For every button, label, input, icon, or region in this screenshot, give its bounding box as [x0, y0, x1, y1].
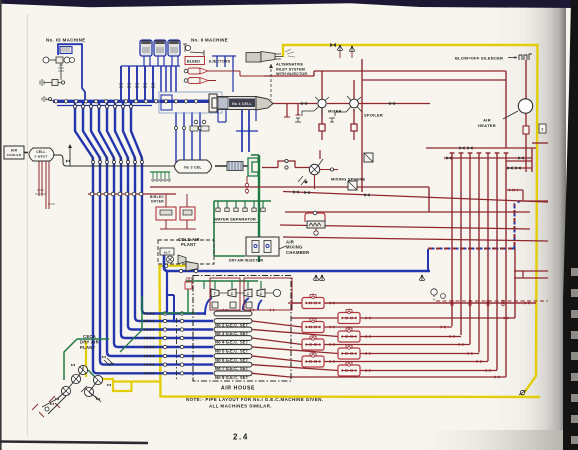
green water separator comb	[214, 200, 271, 202]
green grill under no3	[150, 171, 170, 173]
manifold box row 3	[302, 322, 324, 333]
left scan hairline	[0, 0, 2, 450]
svg-text:C: C	[247, 292, 250, 296]
alternative inlet silencer	[246, 53, 261, 63]
wire capsule to cell line	[53, 155, 176, 166]
bottom-left scan line	[0, 442, 148, 444]
wire red stub right b	[522, 271, 524, 278]
top row capsule	[214, 311, 252, 316]
wire red spoiler out	[359, 103, 430, 105]
cold air plant box	[158, 240, 214, 264]
bottom right shade	[420, 430, 566, 450]
wire blue feed to G.E.C. set row 8	[83, 103, 213, 365]
compressor C	[228, 289, 236, 297]
right book edge black strip	[563, 0, 578, 450]
wire red set row 7	[252, 356, 302, 362]
wire green main riser	[258, 155, 260, 262]
wire blue main bus	[53, 100, 210, 103]
wire red ejector to inlet	[216, 70, 240, 72]
wire yellow injector feed	[160, 265, 187, 267]
air house boundary	[193, 276, 291, 382]
valve symbols row 2	[129, 105, 132, 108]
svg-text:No 4 G.E.C. SET: No 4 G.E.C. SET	[215, 340, 249, 345]
wire red row2 riser	[514, 248, 516, 318]
G.E.C. set capsule No 8 G.E.C. SET	[214, 371, 252, 376]
valve symbols row 9	[73, 105, 76, 108]
wire red lower lines	[283, 192, 548, 203]
cell No4 enclosure	[159, 92, 222, 113]
svg-text:ALL MACHINES SIMILAR.: ALL MACHINES SIMILAR.	[209, 404, 272, 409]
svg-text:C: C	[231, 292, 234, 296]
machine No10 loop	[58, 44, 85, 100]
wire blue air-house west feeds	[166, 271, 168, 314]
svg-text:PLANT: PLANT	[181, 242, 196, 247]
svg-text:AIR HOUSE: AIR HOUSE	[221, 386, 255, 392]
G.E.C. set capsule No 3 G.E.C. SET	[214, 327, 252, 332]
wire red riser 1	[451, 153, 453, 326]
wire red mixer drop	[321, 108, 323, 124]
wire birlec dryer line	[88, 193, 176, 195]
wire red sphere bypass	[262, 167, 278, 169]
valve symbols row 6	[97, 105, 100, 108]
svg-text:EJECTORS: EJECTORS	[209, 60, 231, 64]
G.E.C. set capsule No 6 G.E.C. SET	[214, 354, 252, 359]
svg-text:2.4: 2.4	[233, 433, 249, 442]
drain symbols on distribution	[319, 276, 325, 281]
wire blue feed to G.E.C. set row 7	[91, 103, 213, 356]
valve on yellow top	[330, 43, 336, 47]
red dash overlay on blue	[428, 248, 515, 250]
wire red riser 2	[460, 153, 462, 335]
air cooler box	[4, 146, 24, 159]
ceca unit 4	[61, 386, 70, 395]
valve symbols row 3	[121, 105, 124, 108]
manifold box row 5	[302, 339, 324, 350]
wire cooler-capsule	[24, 152, 28, 154]
G.E.C. set capsule No 2 G.E.C. SET	[214, 319, 252, 324]
wire red stub right a	[514, 270, 548, 272]
svg-text:No 4 CELL: No 4 CELL	[232, 102, 252, 106]
svg-text:2: 2	[541, 128, 543, 132]
red heater chain	[525, 60, 527, 99]
valve on yellow diagonal	[520, 390, 524, 394]
spoiler U2	[350, 99, 359, 108]
No4 cell body	[209, 94, 217, 112]
machine No10 inner unit	[60, 47, 72, 54]
wire red set row 3	[252, 321, 302, 327]
wire red set row 9	[252, 373, 290, 377]
svg-text:No. IO MACHINE: No. IO MACHINE	[46, 38, 86, 43]
No9 machine links	[185, 45, 190, 50]
svg-text:ALTERNATIVE: ALTERNATIVE	[276, 63, 303, 67]
joint below bracket	[246, 176, 248, 194]
svg-text:CHAMBER: CHAMBER	[286, 250, 310, 255]
No3 cell capsule	[175, 160, 212, 173]
wire red set row 2	[291, 317, 338, 319]
right page-curl gradient	[470, 0, 566, 450]
svg-text:BLOW=OFF SILENCER: BLOW=OFF SILENCER	[455, 56, 503, 61]
wire blue feed to G.E.C. set row 5	[107, 103, 213, 338]
svg-text:SPOILER: SPOILER	[364, 113, 383, 118]
machine unit No9-2	[154, 40, 166, 56]
wire green to cold air plant	[213, 201, 215, 256]
air heater U3	[518, 99, 532, 113]
wire red set row 8	[252, 365, 338, 371]
wire red set row 1	[451, 300, 453, 302]
manifold box row 2	[338, 313, 360, 324]
wire red mixer-spoiler	[327, 103, 349, 105]
vertical near capsule	[69, 146, 71, 166]
wire blue riser right	[428, 249, 515, 272]
turbine T	[211, 289, 219, 297]
svg-text:ALT: ALT	[164, 250, 171, 254]
wire blue feed to G.E.C. set row 6	[99, 103, 213, 347]
wire red set row 6	[252, 347, 338, 354]
svg-text:DRY AIR INJECTOR: DRY AIR INJECTOR	[229, 259, 263, 263]
svg-text:WITH INJECTOR: WITH INJECTOR	[276, 72, 307, 76]
wire red riser 5	[487, 153, 489, 361]
wire blue feed to G.E.C. set row 9	[75, 103, 213, 373]
generator G	[273, 289, 280, 296]
svg-text:T: T	[214, 292, 216, 296]
valve symbols row 5	[105, 105, 108, 108]
svg-text:INLET SYSTEM: INLET SYSTEM	[276, 67, 305, 71]
wire red riser 4	[478, 153, 480, 353]
wire blue riser solid part	[427, 249, 429, 271]
air mixing chamber	[246, 237, 279, 256]
svg-text:HEATER: HEATER	[478, 123, 496, 128]
wire red set row 4	[252, 330, 338, 337]
manifold box row 6	[338, 348, 360, 359]
aux red box	[185, 282, 192, 289]
wire red long riser	[361, 59, 363, 192]
valve symbols row 8	[81, 105, 84, 108]
wire red mid line	[285, 211, 530, 213]
ceca unit 2	[71, 374, 80, 383]
wire red second top	[362, 79, 506, 81]
svg-text:CECA: CECA	[83, 334, 96, 339]
wire red riser 6	[496, 153, 498, 370]
wire green ceca riser	[141, 296, 143, 330]
G.E.C. set capsule No 4 G.E.C. SET	[214, 336, 252, 341]
wire red set row 5	[252, 338, 302, 345]
red train loop B	[244, 278, 292, 310]
wire red riser 3	[469, 153, 471, 344]
wire blue air-house turbine feeds	[205, 298, 212, 315]
svg-text:C: C	[260, 292, 263, 296]
svg-text:PLANT: PLANT	[80, 345, 96, 350]
wire yellow supply loop	[283, 45, 538, 397]
valve symbols row 7	[89, 105, 92, 108]
wire blue drops to No3 cell line	[175, 112, 177, 166]
exchanger box A	[364, 153, 373, 162]
wire red mixer riser	[321, 71, 323, 99]
bleed ejector units	[188, 68, 200, 74]
wire blue ejector drops	[216, 56, 218, 67]
wire red upper right link	[507, 189, 523, 191]
wire green air-house header	[186, 280, 258, 282]
ceca unit 1	[78, 365, 87, 374]
wire blue-red to right edge	[515, 201, 521, 249]
exchanger box B	[348, 181, 357, 190]
svg-text:DRYER: DRYER	[151, 199, 164, 203]
No10 machine components	[43, 57, 49, 63]
wire blue below cell No4	[241, 110, 243, 152]
svg-text:DRY AIR: DRY AIR	[80, 340, 99, 345]
red train loop A	[210, 278, 240, 310]
red tee drops after cell	[286, 104, 288, 117]
dry air injector cone	[186, 262, 198, 271]
wire red mixing line	[150, 186, 429, 188]
wire red west drops	[38, 161, 40, 196]
wire red spoiler riser	[353, 80, 355, 99]
svg-text:No 5 G.E.C. SET: No 5 G.E.C. SET	[215, 349, 249, 354]
wire red inlet feed	[264, 75, 314, 77]
wire blue feed to G.E.C. set row 4	[115, 103, 213, 330]
wire green ceca links	[64, 339, 109, 380]
wire red set1 long line	[288, 302, 536, 304]
red radiator unit	[305, 213, 325, 222]
No3 cell bracket	[248, 158, 258, 176]
machine unit No9-3	[168, 40, 180, 56]
svg-text:AIR: AIR	[11, 149, 18, 153]
wire red dashed gauge line	[436, 300, 548, 302]
ceca tail lines	[42, 396, 66, 414]
wire blue comb No9 to bus	[143, 56, 145, 66]
compressor C	[257, 289, 265, 297]
svg-text:3 WEST: 3 WEST	[35, 155, 48, 159]
wire red cell to mixer	[273, 103, 317, 105]
G.E.C. set capsule No 7 G.E.C. SET	[214, 362, 252, 367]
compressor C	[244, 289, 252, 297]
svg-text:CELL: CELL	[36, 150, 46, 154]
svg-text:MIXER: MIXER	[328, 109, 342, 114]
ceca unit 3	[93, 375, 102, 384]
svg-text:WATER SEPARATOR: WATER SEPARATOR	[214, 217, 256, 222]
mixing sphere	[309, 164, 319, 174]
svg-text:BLEED: BLEED	[187, 60, 200, 64]
wire red riser 7	[505, 153, 507, 377]
valve symbols row 4	[113, 105, 116, 108]
wire blue feed to G.E.C. set row 3	[123, 103, 213, 321]
wire yellow ceca branch	[86, 341, 132, 391]
G.E.C. set capsule No 5 G.E.C. SET	[214, 345, 252, 350]
train aux boxes	[212, 302, 218, 308]
svg-text:COOLER: COOLER	[7, 153, 22, 157]
wire blue feed to G.E.C. set row 2	[131, 103, 205, 314]
top scan bar	[0, 0, 578, 8]
wire red spoiler drop	[353, 109, 355, 124]
dashed inlet link	[270, 64, 272, 100]
manifold box row 4	[338, 331, 360, 342]
wire red blow-off top	[314, 70, 506, 72]
vent symbols	[337, 46, 343, 51]
label BLEED EJECTORS	[185, 57, 205, 65]
pump circles below cell	[194, 120, 198, 124]
manifold box row 7	[302, 356, 324, 367]
svg-text:AIR: AIR	[483, 118, 491, 123]
blow-off silencer symbol	[508, 57, 517, 59]
book page-edge notches	[571, 268, 578, 276]
manifold box row 1	[302, 298, 324, 309]
machine unit No9-1	[140, 40, 152, 56]
wire blue distribution main	[164, 252, 430, 271]
cell aux blue box	[161, 95, 172, 110]
manifold box row 8	[338, 365, 360, 376]
ceca unit 5	[84, 387, 93, 396]
mixer U1	[318, 99, 326, 107]
wire no3 cell line valves	[140, 156, 142, 160]
No3 cell shaft	[215, 165, 248, 167]
birlec dryer boxes	[156, 207, 176, 220]
svg-text:No. 9 MACHINE: No. 9 MACHINE	[191, 38, 228, 43]
left margin crease	[27, 14, 29, 436]
svg-text:No 8 G.E.C. SET: No 8 G.E.C. SET	[215, 375, 249, 380]
svg-text:No 3 CEL: No 3 CEL	[184, 166, 201, 170]
cell 3 west capsule	[29, 148, 54, 161]
svg-text:MIXING SPHERE: MIXING SPHERE	[331, 177, 366, 182]
air house west partition	[176, 318, 178, 381]
junctions on distribution	[179, 269, 182, 272]
junction circles on bus	[54, 100, 57, 103]
svg-text:NOTE:- PIPE LAYOUT FOR No.I: NOTE:- PIPE LAYOUT FOR No.I G.E.C.MACHIN…	[186, 397, 323, 402]
